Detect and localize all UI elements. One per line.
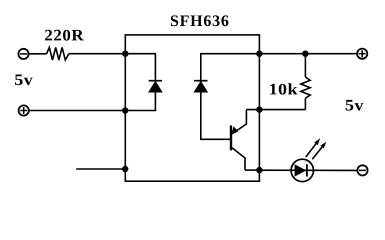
junction at box left edge middle — [122, 107, 128, 113]
transistor Q1 collector lead — [232, 110, 246, 134]
junction at box left edge bottom — [122, 166, 128, 172]
junction collector rail on box right edge — [256, 106, 262, 112]
resistor 10k — [301, 77, 310, 98]
wire 10k top lead — [304, 54, 306, 77]
label SFH636 — [171, 15, 229, 26]
wire collector rail to 10k bottom — [246, 109, 305, 111]
terminal input minus — [18, 49, 28, 59]
transistor Q1 emitter lead — [232, 148, 245, 170]
junction emitter rail on box right edge — [256, 167, 262, 173]
wire photodiode D2 top to box right edge — [201, 54, 260, 80]
wire junction to LED diode D1 top — [125, 54, 155, 80]
wire terminal plus to box left edge — [30, 110, 126, 112]
diode D2 (photodiode) — [194, 81, 208, 93]
wire diode D2 bottom to transistor base — [201, 92, 230, 139]
transistor Q1 collector arrow — [231, 126, 238, 134]
LED D3 indicator — [291, 159, 313, 181]
label 5v input — [15, 75, 33, 86]
terminal output plus — [357, 49, 367, 59]
wire diode D1 bottom to input plus rail — [125, 92, 155, 110]
optocoupler U1 outline box — [125, 35, 259, 181]
wire 10k bottom lead — [304, 98, 306, 109]
transistor Q1 base bar — [230, 125, 232, 150]
junction top rail on box right edge — [256, 51, 262, 57]
wire resistor to box left edge — [69, 53, 125, 55]
resistor 220R — [47, 47, 69, 60]
LED D3 arrow 2 — [312, 142, 326, 160]
junction 10k top — [302, 51, 308, 57]
label 5v output — [346, 100, 364, 111]
LED D3 arrow 1 — [306, 138, 320, 157]
wire emitter to box right edge — [245, 169, 259, 171]
wire top rail box to terminal plus out — [259, 53, 357, 55]
terminal output minus — [357, 165, 367, 175]
diode D1 (emitter LED of optocoupler) — [149, 81, 163, 93]
wire stub bottom left — [76, 168, 125, 170]
wire emitter rail to LED and terminal minus out — [259, 169, 357, 171]
terminal input plus — [19, 105, 29, 115]
label 10k — [270, 83, 298, 94]
wire terminal minus to resistor — [29, 53, 46, 55]
label 220R — [45, 30, 84, 41]
junction at box left edge top — [122, 51, 128, 57]
